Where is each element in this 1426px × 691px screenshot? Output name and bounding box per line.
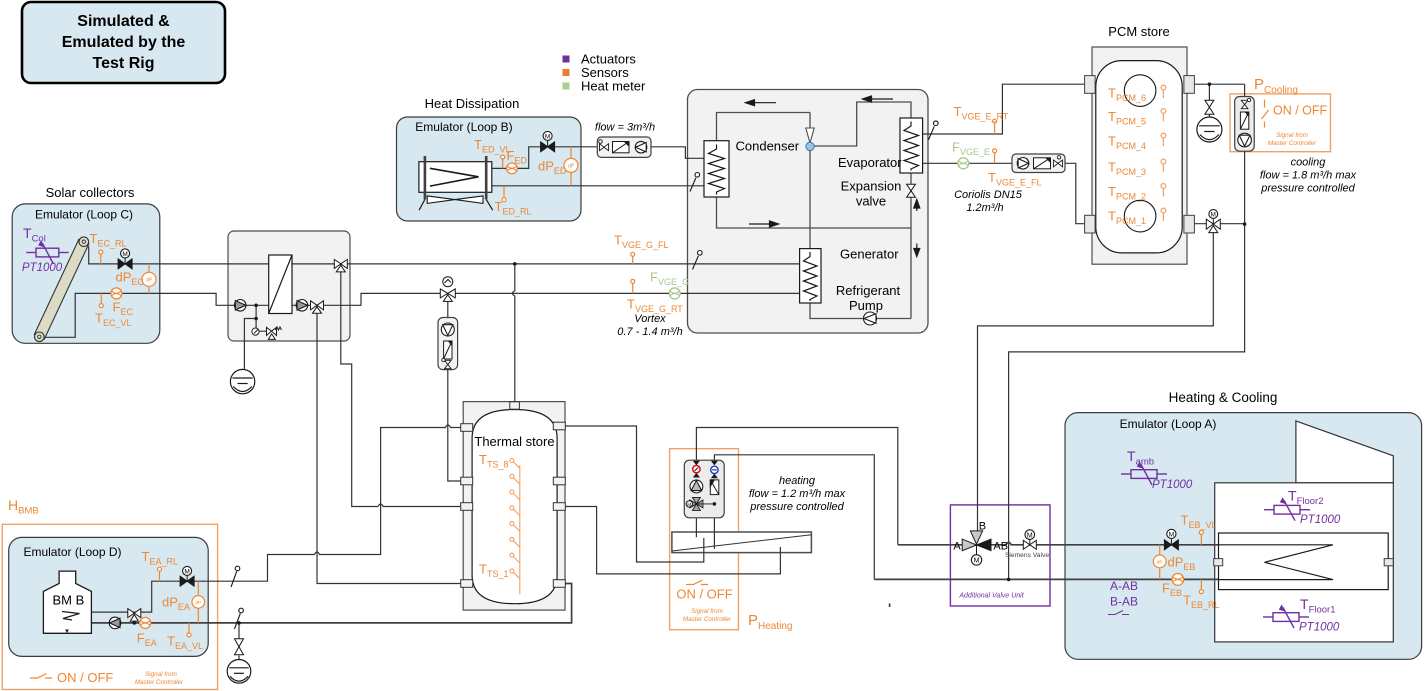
svg-text:Expansion: Expansion [841, 179, 902, 194]
expansion vessel cooling [1197, 117, 1222, 142]
junction dot cooling top [1208, 82, 1212, 86]
port tab PCM bottom-right [1184, 215, 1195, 233]
switch symbol A-AB [1108, 611, 1129, 615]
sensor probe T_EC_RL [99, 250, 103, 264]
svg-text:Vortex: Vortex [634, 313, 666, 325]
wire heating pump group return riser [714, 455, 874, 580]
sensor F_ED flow meter [507, 163, 518, 174]
svg-text:Heat meter: Heat meter [581, 79, 646, 94]
port tab store left 3 [461, 503, 473, 511]
svg-text:Condenser: Condenser [736, 139, 800, 154]
svg-text:M: M [184, 569, 189, 576]
svg-text:ON / OFF: ON / OFF [57, 670, 113, 685]
pump cooling unit [1238, 133, 1252, 147]
svg-text:0.7 - 1.4 m³/h: 0.7 - 1.4 m³/h [617, 326, 682, 338]
svg-text:Emulator (Loop C): Emulator (Loop C) [35, 208, 133, 222]
heating branch pump unit gray box [438, 318, 458, 370]
junction dot cooling valve [1243, 222, 1247, 226]
sensor F_EC flow meter [111, 288, 122, 299]
motorized valve T_EB [1164, 529, 1178, 549]
sensor F_EA flow meter [140, 617, 151, 628]
cooling pump unit gray box [1235, 97, 1255, 152]
svg-text:dP: dP [568, 163, 575, 169]
sensor probe T_VGE_E_FL [993, 149, 997, 163]
evaporator heat exchanger [900, 118, 923, 173]
wire Loop A supply thick with bump over x1008.6 [898, 542, 1219, 545]
wire evaporator FL to PCM bottom-left port [923, 163, 1086, 223]
PCM store vessel [1096, 61, 1182, 253]
heat meter F_VGE_G [669, 288, 680, 299]
legend Sensors [563, 69, 570, 76]
wire chiller generator to refrigerant pump [810, 303, 911, 319]
svg-text:cooling: cooling [1291, 157, 1327, 169]
small motor valve Coriolis unit [1054, 156, 1063, 167]
PCM inspection circle bottom [1124, 200, 1156, 232]
wire chiller evaporator top loop [814, 102, 911, 146]
safety valve solar unit [267, 327, 282, 339]
svg-text:Generator: Generator [840, 247, 899, 262]
port tab store left 4 [461, 580, 473, 588]
svg-text:Evaporator: Evaporator [838, 155, 902, 170]
shut-off valve above Loop D expansion vessel [235, 639, 244, 655]
absorption chiller gray box [688, 90, 929, 334]
wire Loop D VL thick run to store bottom-right port [91, 584, 571, 623]
svg-text:M: M [974, 558, 980, 565]
dry cooler Loop B [419, 156, 493, 210]
PCM store outer frame [1092, 47, 1187, 264]
wire heating-unit branch: solar VL 3way valve down to store port2 [448, 293, 473, 481]
svg-text:B-AB: B-AB [1110, 595, 1138, 609]
3-way valve on lower pipe solar unit [311, 301, 324, 314]
thermal store outer frame [463, 402, 565, 610]
emulator box Loop A (Heating & Cooling) [1065, 413, 1422, 660]
shut-off valve above PCM expansion vessel [1205, 100, 1214, 114]
P_Cooling orange boundary box [1230, 94, 1331, 152]
emulator box Loop D [9, 537, 209, 656]
pump heating group [690, 480, 703, 493]
svg-text:Signal from: Signal from [145, 671, 177, 678]
thermostatic valve blue [711, 461, 718, 479]
title box Simulated & Emulated by the Test Rig [22, 2, 225, 83]
Loop A house body white rect [1215, 483, 1394, 642]
svg-text:PCM store: PCM store [1108, 24, 1169, 39]
wire store portA to radiator left leg [556, 426, 704, 562]
svg-text:Solar collectors: Solar collectors [46, 185, 135, 200]
svg-text:PT1000: PT1000 [1299, 622, 1340, 634]
wire Loop D expansion branch [238, 623, 240, 660]
port tab store right C [553, 503, 565, 511]
motorized valve Loop D [180, 566, 194, 586]
port tab HX right [1384, 559, 1393, 566]
actuator T_Col PT1000 resistor [26, 243, 68, 264]
motorized valve Loop B [541, 131, 555, 151]
svg-text:Heat Dissipation: Heat Dissipation [425, 96, 520, 111]
sensor probe T_EB_VL [1199, 530, 1203, 544]
sensor probe T_ED_RL [502, 186, 506, 202]
sensor chain T_TS probes [510, 459, 520, 595]
flow arrow down right riser [914, 244, 920, 257]
thermostatic valve red [693, 461, 700, 478]
3-way valve on upper pipe solar unit [334, 259, 347, 272]
wire solar-box top valve branch down to store port3 [341, 264, 378, 507]
wire chiller blue-node drop to generator [809, 150, 811, 249]
junction dot valve unit return [1007, 578, 1011, 582]
wire chiller right riser evaporator to pump [910, 173, 912, 319]
svg-text:dP: dP [146, 277, 153, 283]
port tab store right D [553, 580, 565, 588]
flow arrow top-right [863, 96, 894, 102]
svg-text:ON / OFF: ON / OFF [1273, 104, 1328, 118]
svg-text:valve: valve [856, 194, 886, 209]
disconnect switch condenser RL [690, 173, 700, 192]
Additional Valve Unit purple box [950, 505, 1050, 606]
emulator box Loop B (Heat Dissipation) [397, 117, 582, 221]
wire store port3 horizontal with bump over x380.6 [378, 504, 473, 507]
wire Loop D RL to thermal store port1 with bumps [229, 425, 473, 581]
Siemens motorized valve [1023, 530, 1036, 550]
svg-text:M: M [1169, 532, 1174, 539]
sensor dP_EC [142, 264, 156, 294]
sensor probe T_EA_RL [158, 567, 162, 581]
disconnect switch on Loop D VL [235, 608, 244, 629]
pump P2 solar unit [296, 300, 308, 312]
sensor probe T_EB_RL [1199, 579, 1203, 593]
flow arrow top-left [746, 100, 777, 106]
svg-text:Emulator (Loop A): Emulator (Loop A) [1120, 417, 1217, 431]
expansion valve symbol [907, 184, 916, 197]
svg-text:dP: dP [195, 600, 201, 606]
wire Loop A return thick [874, 578, 1218, 580]
svg-text:pressure controlled: pressure controlled [749, 501, 844, 513]
svg-text:Pump: Pump [849, 298, 883, 313]
svg-text:Refrigerant: Refrigerant [836, 283, 901, 298]
condenser heat exchanger [704, 141, 729, 197]
flow meter Coriolis unit [1034, 158, 1051, 169]
pump pump-unit B [635, 141, 647, 153]
svg-text:A-AB: A-AB [1110, 579, 1138, 593]
expansion vessel Loop D [227, 660, 251, 684]
svg-text:Emulated by the: Emulated by the [62, 34, 186, 51]
svg-text:PT1000: PT1000 [1152, 479, 1193, 491]
svg-text:heating: heating [779, 475, 816, 487]
motorized 3-way valve heating group [690, 497, 715, 510]
solar collector panel [34, 237, 89, 342]
expansion vessel solar [230, 369, 254, 393]
sensor probe T_VGE_E_RT [993, 119, 997, 134]
svg-text:Emulator (Loop D): Emulator (Loop D) [23, 545, 121, 559]
svg-text:B: B [979, 521, 986, 533]
3-way valve Loop D bypass [128, 609, 141, 622]
BMB boiler [43, 571, 91, 633]
wire valve unit riser up and over to cooling drop [1009, 84, 1245, 579]
wire Loop D 3way valve stub [133, 614, 135, 623]
disconnect switch generator FL [693, 251, 703, 270]
wire solar VL: collector bottom riser to generator RT [44, 293, 800, 337]
flow arrow up right riser [914, 200, 920, 212]
svg-text:M: M [1027, 532, 1033, 539]
sensor probe T_EC_VL [99, 293, 103, 307]
sensor dP_ED [564, 147, 578, 186]
wire solar-box pump valve branch down to store bottom-left port [317, 305, 473, 583]
sensor F_EB flow meter [1172, 574, 1184, 586]
3-way mixing valve heating branch [440, 289, 455, 302]
refrigerant pump [864, 312, 877, 325]
svg-text:pressure controlled: pressure controlled [1260, 183, 1355, 195]
wire Loop B VL: dry cooler to condenser [492, 147, 706, 169]
disconnect switch on Loop D RL [231, 566, 240, 587]
port tab store right A [553, 422, 565, 430]
port tab PCM top-left [1085, 76, 1096, 94]
ON/OFF switch symbol Loop D [30, 674, 52, 679]
svg-text:flow = 1.2 m³/h max: flow = 1.2 m³/h max [749, 488, 846, 500]
wire solar safety group drop to expansion vessel [244, 305, 266, 370]
temperature controller on 3way valve [443, 277, 453, 287]
svg-text:Signal from: Signal from [1276, 132, 1308, 139]
svg-text:ON / OFF: ON / OFF [676, 587, 732, 602]
node blue refrigerant junction [806, 142, 814, 150]
wire PCM expansion branch [1208, 84, 1210, 117]
svg-text:Master Controller: Master Controller [683, 616, 732, 623]
sensor pins T_PCM [1161, 85, 1166, 221]
port tab store left 2 [461, 477, 473, 485]
wire chiller condenser top loop [717, 113, 811, 141]
pump Loop D [109, 617, 121, 629]
pressure gauge solar unit [252, 328, 259, 335]
svg-text:M: M [687, 502, 691, 508]
wire BMB coil stub [66, 620, 68, 632]
sensor probe T_ED_VL [501, 155, 505, 168]
svg-text:Test Rig: Test Rig [93, 55, 155, 72]
small motor valve pump unit B [599, 140, 609, 151]
PCM inspection circle top [1124, 75, 1156, 107]
floor heating HX Loop A [1219, 533, 1389, 590]
thermal store vessel [472, 410, 557, 604]
flow meter cooling unit [1240, 112, 1248, 129]
sensor dP_EA [192, 581, 205, 623]
svg-text:Simulated &: Simulated & [77, 13, 170, 30]
svg-text:flow = 3m³/h: flow = 3m³/h [595, 122, 655, 134]
svg-text:AB: AB [993, 541, 1008, 553]
sensor probe T_VGE_G_RT [631, 279, 635, 293]
actuator T_amb PT1000 resistor [1121, 465, 1167, 486]
actuator T_Floor1 PT1000 resistor [1263, 608, 1309, 629]
wire store portC to radiator right leg [556, 507, 780, 574]
port tab store left 1 [461, 424, 473, 432]
sensor dP_EB [1153, 545, 1166, 580]
svg-text:Siemens Valve: Siemens Valve [1005, 552, 1049, 559]
svg-text:M: M [1211, 212, 1216, 219]
port tab PCM bottom-left [1085, 215, 1096, 233]
wire Loop B RL: condenser to dry cooler [492, 185, 706, 187]
junction dot solar RL to store [513, 262, 517, 266]
heating radiator [672, 532, 812, 553]
svg-text:flow = 1.8 m³/h max: flow = 1.8 m³/h max [1260, 170, 1357, 182]
sensor probe T_EA_VL [187, 623, 191, 637]
port tab store top [510, 402, 520, 409]
svg-text:Additional Valve Unit: Additional Valve Unit [958, 593, 1024, 600]
svg-text:Coriolis DN15: Coriolis DN15 [954, 189, 1023, 201]
3-way diverting valve Additional Valve Unit [962, 531, 991, 555]
legend Heat meter [563, 83, 570, 90]
filter heating group [710, 480, 719, 495]
flow arrow middle [749, 221, 779, 227]
small motor valve heating branch [442, 358, 451, 368]
junction dots solar unit [254, 304, 258, 308]
wire solar RL: collector top to generator FL [85, 244, 800, 264]
ON/OFF switch symbol cooling [1262, 100, 1269, 128]
pump heating branch [441, 323, 454, 336]
ON/OFF switch symbol heating [686, 580, 708, 585]
svg-text:Master Controller: Master Controller [1268, 140, 1317, 147]
svg-text:M: M [122, 251, 127, 258]
sensor probe T_VGE_G_FL [631, 252, 635, 264]
svg-text:PT1000: PT1000 [22, 262, 63, 274]
pump unit Coriolis gray box [1012, 154, 1065, 173]
svg-text:Thermal store: Thermal store [474, 434, 554, 449]
svg-text:Emulator (Loop B): Emulator (Loop B) [415, 120, 512, 134]
pump P1 solar unit [234, 300, 246, 312]
wire thermal store top feed with bump over y293.4 [512, 264, 514, 408]
wire Loop D RL from boiler to M valve [91, 581, 229, 612]
svg-text:BM B: BM B [53, 593, 85, 608]
wire PCM top-right port to cooling drop [1187, 83, 1245, 85]
port tab PCM top-right [1184, 76, 1195, 94]
small motor valve cooling unit [1241, 98, 1250, 108]
Loop A house silhouette (roof) [1296, 421, 1393, 483]
port tab HX left [1214, 559, 1223, 566]
svg-text:PT1000: PT1000 [1300, 514, 1341, 526]
flow meter pump unit B [613, 142, 630, 153]
svg-text:A: A [953, 541, 961, 553]
plate heat exchanger solar unit [269, 255, 292, 314]
disconnect switch evaporator RT [929, 121, 939, 140]
pump unit Loop B gray box [597, 137, 651, 157]
refrigerant nozzle [806, 128, 814, 143]
svg-text:1.2m³/h: 1.2m³/h [966, 202, 1003, 214]
stray mark dot [889, 604, 891, 607]
actuator T_Floor2 PT1000 resistor [1264, 500, 1310, 521]
svg-text:M: M [545, 134, 550, 141]
wire PCM 3way branch to valve-unit B port [978, 231, 1214, 540]
legend Actuators [563, 56, 570, 63]
pump Coriolis unit [1017, 158, 1029, 170]
wire PCM bottom-right port to 3way valve [1187, 223, 1245, 225]
svg-text:Master Controller: Master Controller [135, 679, 184, 686]
emulator box Loop C (Solar collectors) [12, 204, 160, 343]
svg-text:Signal from: Signal from [691, 608, 723, 615]
generator heat exchanger [800, 249, 821, 303]
P_Heating orange boundary box [670, 449, 739, 630]
heat meter F_VGE_E [958, 158, 969, 169]
H_BMB orange boundary box [2, 524, 217, 689]
heating pump group gray box [684, 460, 724, 518]
flow meter heating branch [444, 341, 452, 359]
port tab store right B [553, 477, 565, 485]
wire evaporator RT to PCM top-left port [923, 84, 1086, 134]
wire chiller condenser bottom to right riser [717, 197, 912, 228]
solar heat-exchanger unit gray box [228, 231, 350, 341]
wire heating pump group supply from 3way valve A [696, 428, 897, 545]
svg-text:dP: dP [1157, 559, 1163, 565]
motorized 3-way valve PCM outlet [1206, 218, 1220, 232]
BMB heating coil [62, 612, 80, 621]
svg-text:Heating & Cooling: Heating & Cooling [1169, 390, 1278, 405]
motorized valve Loop C [118, 249, 132, 269]
